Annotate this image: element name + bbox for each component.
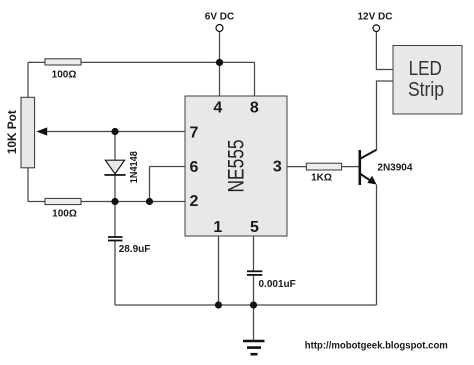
svg-text:100Ω: 100Ω (52, 69, 77, 80)
svg-text:5: 5 (250, 219, 259, 236)
svg-text:4: 4 (213, 99, 222, 116)
svg-text:10K Pot: 10K Pot (7, 110, 19, 154)
svg-text:LED: LED (409, 57, 442, 80)
svg-text:http://mobotgeek.blogspot.com: http://mobotgeek.blogspot.com (305, 340, 448, 351)
svg-text:12V DC: 12V DC (357, 11, 392, 22)
svg-text:1KΩ: 1KΩ (311, 173, 332, 184)
svg-text:28.9uF: 28.9uF (119, 244, 151, 255)
svg-text:100Ω: 100Ω (52, 208, 77, 219)
svg-text:2N3904: 2N3904 (377, 162, 412, 173)
svg-text:2: 2 (190, 193, 199, 210)
svg-text:1N4148: 1N4148 (129, 151, 140, 183)
svg-text:8: 8 (250, 99, 259, 116)
svg-text:Strip: Strip (408, 78, 444, 101)
svg-text:0.001uF: 0.001uF (259, 279, 296, 290)
svg-text:3: 3 (273, 158, 282, 175)
svg-text:1: 1 (213, 219, 222, 236)
svg-text:6V DC: 6V DC (205, 11, 234, 22)
svg-text:6: 6 (190, 159, 199, 176)
svg-text:7: 7 (190, 124, 199, 141)
svg-text:NE555: NE555 (224, 140, 249, 193)
